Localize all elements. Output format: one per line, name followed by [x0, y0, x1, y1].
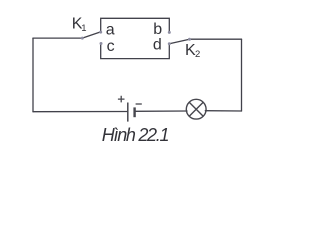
wire right vertical [241, 39, 243, 111]
battery BT short negative plate [133, 107, 135, 117]
svg-text:Hình 22.1: Hình 22.1 [102, 125, 169, 145]
wire bottom right (lamp to corner) [205, 110, 241, 112]
battery polarity + sign [118, 96, 125, 103]
svg-text:1: 1 [81, 23, 86, 34]
label a [106, 22, 115, 39]
label K1 [72, 16, 87, 34]
label b [153, 21, 162, 38]
svg-text:2: 2 [195, 49, 200, 60]
svg-text:a: a [106, 22, 115, 39]
switch K1 blade [82, 32, 100, 38]
wire left vertical [32, 38, 34, 112]
label K2 [185, 42, 200, 60]
wire K1 feed horizontal [33, 37, 82, 39]
lamp (circle with X) [186, 99, 206, 119]
wire K2 feed horizontal [190, 38, 242, 40]
svg-text:b: b [153, 21, 162, 38]
label d [153, 36, 162, 53]
battery BT long positive plate [127, 103, 129, 122]
battery polarity - sign [136, 103, 142, 105]
wire bottom left (to battery +) [33, 111, 127, 113]
svg-text:c: c [107, 38, 115, 55]
node d terminal dot [168, 42, 171, 45]
node a terminal dot [99, 31, 102, 34]
black box (component with terminals a,b,c,d) [101, 18, 170, 58]
node c terminal dot [100, 42, 103, 45]
switch K2 blade [169, 39, 189, 44]
label c [107, 38, 115, 55]
node b terminal dot [168, 31, 171, 34]
svg-text:d: d [153, 36, 162, 53]
switch K1 pivot dot [81, 37, 84, 40]
caption Hình 22.1 [102, 125, 169, 145]
wire bottom middle (battery - to lamp) [135, 110, 187, 112]
switch K2 pivot dot [188, 38, 191, 41]
